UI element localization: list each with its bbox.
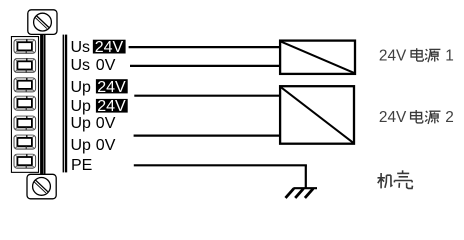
label 24V inverted row1	[93, 39, 126, 56]
connector front rail bar 1	[40, 35, 43, 175]
svg-text:Us: Us	[71, 57, 91, 74]
chassis ground symbol	[286, 188, 318, 198]
svg-text:1: 1	[445, 47, 454, 64]
wire PE vertical drop	[305, 165, 307, 188]
svg-text:Up: Up	[71, 98, 92, 115]
terminal 3	[14, 78, 36, 92]
terminal 6	[14, 135, 36, 149]
connector body outline	[11, 37, 38, 173]
svg-text:24V: 24V	[379, 47, 407, 64]
glyph yuan (supply 1)	[425, 49, 440, 62]
terminal 4	[14, 96, 36, 110]
wire Up 24V to supply 2	[134, 95, 281, 97]
power supply U2 box	[280, 86, 354, 144]
svg-text:Up: Up	[71, 115, 92, 132]
connector front rail bar 2	[44, 35, 46, 175]
svg-text:24V: 24V	[379, 109, 407, 126]
glyph yuan (supply 2)	[425, 111, 440, 124]
svg-text:Up: Up	[71, 137, 92, 154]
svg-text:0V: 0V	[96, 115, 116, 132]
svg-text:0V: 0V	[96, 137, 116, 154]
terminal 2	[14, 59, 36, 73]
terminal 5	[14, 116, 36, 130]
glyph dian (supply 2)	[411, 110, 423, 123]
glyph ke (chassis)	[394, 170, 412, 188]
svg-text:2: 2	[445, 109, 454, 126]
svg-text:24V: 24V	[97, 98, 126, 115]
header wall bar 1	[63, 35, 64, 173]
label 24V inverted row3	[96, 79, 128, 96]
glyph ji (chassis)	[378, 173, 393, 188]
label 24V inverted row4	[96, 98, 128, 115]
svg-text:Up: Up	[71, 79, 92, 96]
bottom screw flange	[27, 174, 56, 199]
wire Us 24V to supply 1	[129, 46, 281, 48]
glyph dian (supply 1)	[411, 48, 423, 61]
power supply U1 box	[280, 41, 355, 74]
top screw flange	[28, 10, 57, 35]
wire Up 0V to supply 2	[134, 135, 281, 137]
wire PE horizontal	[134, 164, 307, 166]
header wall bar 2	[65, 35, 67, 173]
svg-text:0V: 0V	[96, 57, 116, 74]
svg-text:PE: PE	[71, 157, 92, 174]
svg-text:Us: Us	[71, 39, 91, 56]
svg-text:24V: 24V	[95, 39, 124, 56]
wire Us 0V to supply 1	[130, 65, 281, 67]
terminal 1	[14, 39, 36, 53]
svg-text:24V: 24V	[97, 79, 126, 96]
terminal 7	[14, 154, 36, 168]
